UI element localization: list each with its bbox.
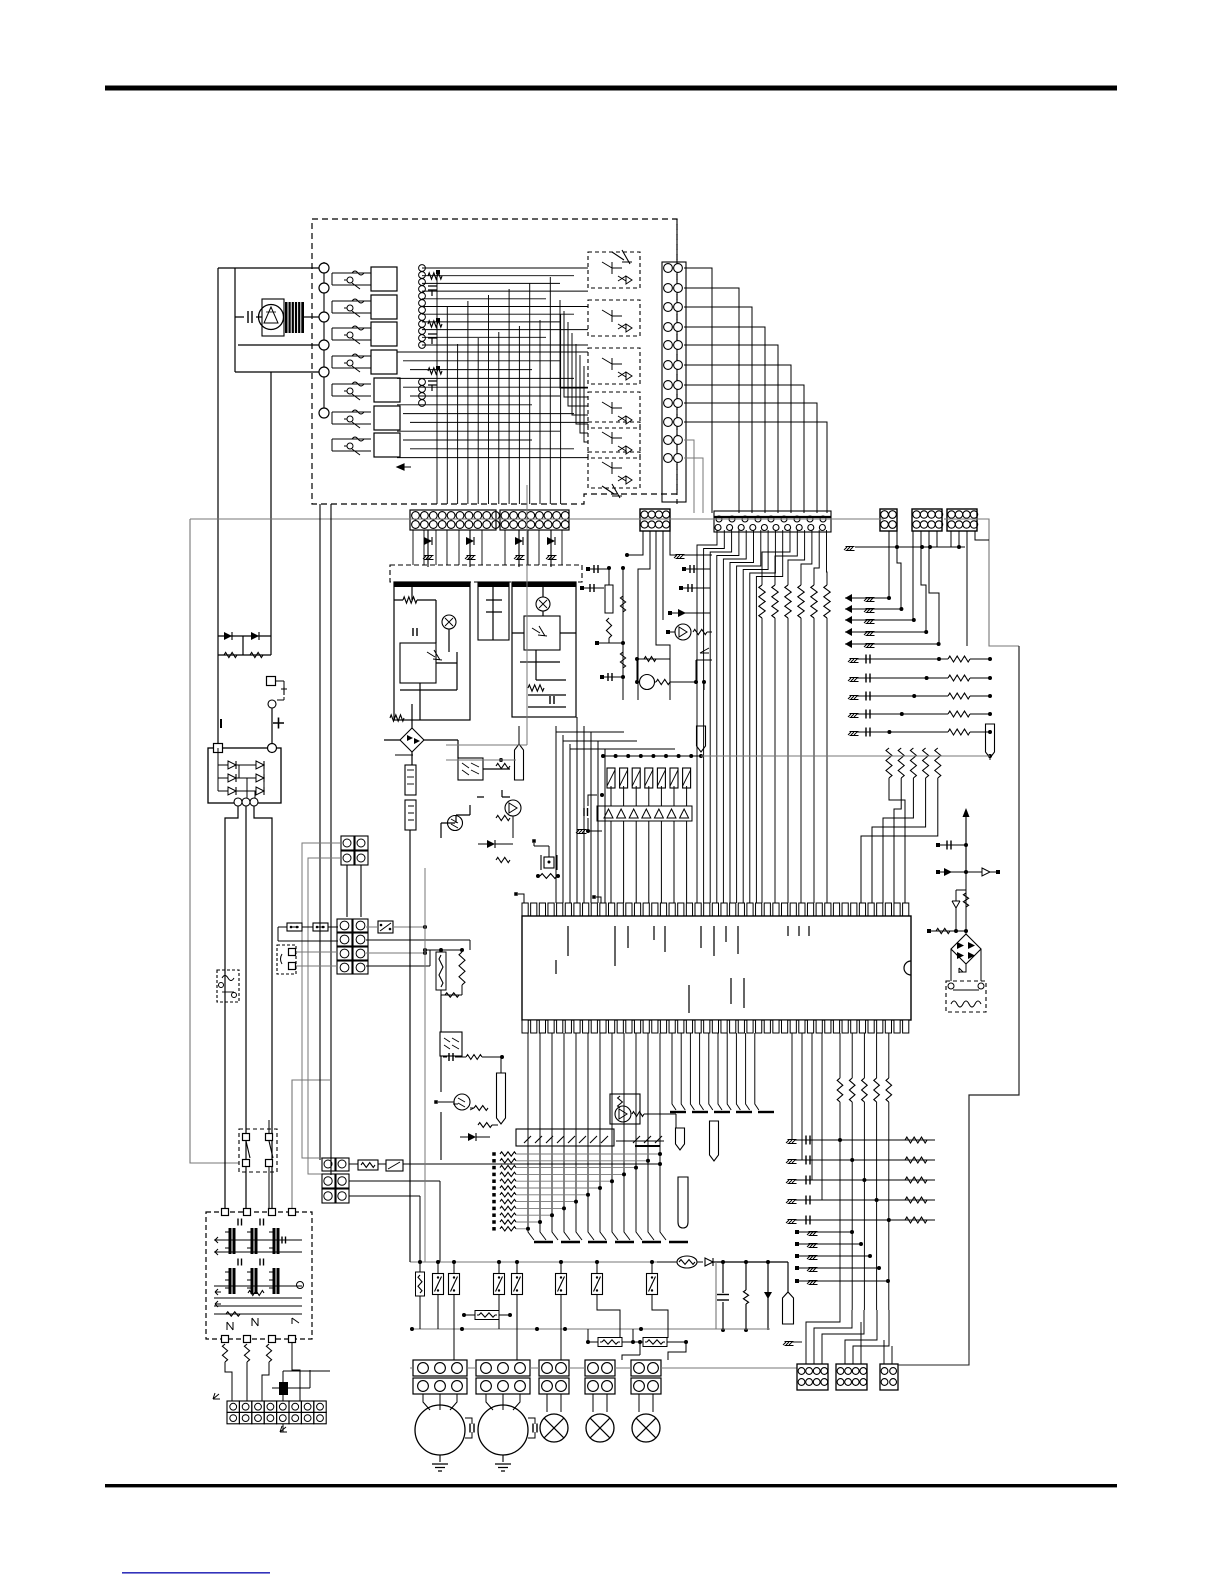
cluster wire x670 [670,531,712,555]
array verticals [610,786,612,806]
power arrow up [965,820,967,872]
CN right A [797,1364,828,1390]
CN lamp2 lower [585,1378,615,1394]
cluster diode row [670,612,710,614]
PSU stub marks [423,556,434,560]
diode array box [597,806,692,821]
right stair wires [889,531,989,646]
wire motor line [235,268,271,655]
PSU module B resistor [528,685,544,691]
polarity plus [273,718,284,729]
main gray bus [190,519,1019,646]
driver transformer blocks T1-T7 [371,267,397,291]
array top bus [603,755,701,757]
PSU module A body [394,582,470,720]
bottle x500 [497,1073,506,1124]
module outputs down [412,717,543,740]
lower relay wires [349,1164,660,1262]
slash box [516,1129,614,1146]
resistor box RB1 [358,1160,378,1170]
header CN-A [410,510,496,530]
header CN-B [500,510,569,530]
gate resistors R-G1..3 [428,273,442,279]
header CN-G block [947,509,977,531]
cluster wire x656 [656,531,670,700]
long vertical from inverter B [330,504,332,1175]
IGBT pairs Q1-Q6 (dashed) [588,252,640,288]
bottle B3 [710,1121,719,1161]
harness black device [279,1382,288,1395]
input filter resistor row [218,654,271,656]
snubber cap C20 [722,1262,724,1330]
center resistor r [448,1053,450,1061]
IC U1 notch [904,961,911,975]
PSU module B wires [512,583,576,707]
PSU dashed boundary [390,565,582,582]
snubber bottle [787,1262,789,1292]
zener row [395,754,413,756]
center vertical x441 [440,995,442,1160]
sense resistors to IC [889,778,905,903]
center cap bottle [515,744,524,780]
wire lower input [235,345,319,372]
output header pins [664,264,673,273]
right cap rows [848,659,859,663]
coil bobbin lower [405,800,416,830]
harness arrow glyph 2 [280,1426,287,1432]
IC U1 bottom ticks [688,985,690,1013]
sense resistor verticals [886,748,892,778]
bottom gray link [410,1367,797,1369]
main switched live vertical [409,830,411,1262]
IC U1 body [522,916,911,1020]
mid 2x2 connector [341,836,354,850]
DC bus wire 4 [292,1080,330,1210]
cluster buzzer [675,624,691,640]
bridge diamond D10 [400,728,424,752]
zener branch [956,872,966,935]
relay K2 [386,1160,403,1171]
motor M3 ground [502,1455,504,1462]
PSU module A wires [394,583,457,720]
left gray drop [190,519,239,1163]
lamp LP3 wires [639,1394,653,1412]
transformer bottom terminals [222,1336,229,1343]
left module columns [413,530,562,565]
CN lamp2 upper [585,1360,615,1376]
relay dashed box small [277,945,296,974]
snubber diode D20 [767,1262,769,1330]
page top rule [105,86,1117,91]
CN-D right drops with resistors [762,530,790,585]
cluster caps [590,568,610,570]
motor M2 ground [439,1455,441,1462]
header CN-E block [880,509,897,531]
CN motor2 upper [476,1360,530,1376]
DC bus wires down [225,806,272,1210]
transformer N glyphs [252,1318,258,1326]
right bottle TP1 [986,724,995,758]
opto U3 [458,758,483,780]
transformer corner glyph [297,1282,304,1289]
res verticals mid [837,1078,843,1102]
tact switches row [433,1274,444,1295]
diode d [468,1133,476,1141]
fuse F2 vertical [436,952,446,990]
fuse F10 [416,1272,425,1296]
input filter diode row [218,636,271,655]
motor M3 wires [486,1394,520,1410]
bottom verticals misc [410,1230,430,1262]
left fan resistor rows [492,1152,496,1156]
IGBT Q7 [602,484,622,498]
capacitor C1 [247,311,249,323]
right block feeds [806,1310,892,1364]
inverter output header frame [662,262,686,502]
coil bobbin upper [405,765,416,795]
lamp LP2 [586,1414,614,1442]
PSU module A lamp [442,615,456,629]
staircase jogs left [556,726,675,749]
bridge output pins [234,798,242,806]
long vertical from inverter A [319,504,321,1160]
diode row y872 [936,870,940,874]
fuse resistor FR1 [475,1311,499,1320]
connector CN-IN pins [323,262,325,418]
IC bottom pin drops mid [672,1033,676,1110]
IGBT top transistor [612,250,632,264]
array bus bottle [697,726,706,752]
mid drop wires [852,1232,888,1310]
bottom bus 1 [410,1261,657,1263]
transformer mid lines [214,1240,302,1314]
right hatch bus [844,547,855,551]
cluster transistor Q20 [640,675,655,690]
sensor dashed box [217,970,239,1002]
right boundary dark [969,646,1019,1350]
header CN-C block [640,509,670,531]
bridge internal wires [218,748,264,802]
opto U4 [440,1032,462,1056]
surge diode [705,1258,713,1266]
CN lamp1 lower [539,1378,569,1394]
gray verticals right of modules [576,620,610,660]
module feed wires [428,567,551,582]
fuse top link [425,949,462,951]
inverter module dashed boundary [312,219,677,504]
PSU module B body [512,582,576,717]
gray link rows [446,745,527,760]
relay K1 [378,921,393,933]
lamp LP1 wires [547,1394,561,1412]
output wires gray pair [684,440,703,513]
filter rails vertical [217,636,219,748]
transformer top terminals [222,1209,229,1216]
lower conn pair [322,1158,335,1171]
motor M3 cap [528,1418,535,1438]
driver block left wiring [332,272,371,274]
lamp LP1 [540,1414,568,1442]
array cap branch [588,795,597,806]
bottom bus 2 [410,1262,770,1329]
CN right B [836,1364,867,1390]
harness arrow glyph 1 [213,1393,220,1399]
relay connector side boxes [287,923,302,931]
transformer windings [229,1228,232,1254]
polarity minus [220,719,222,728]
center resistors [496,763,510,768]
IC U1 bottom pin comb [522,1020,528,1033]
fuse resistor FR2 [598,1338,622,1347]
IC left pin feeds [555,732,557,903]
transformer lower resistors [222,1344,227,1362]
motor M2 [415,1405,465,1455]
lower conn 2x2 [322,1174,335,1188]
resistor R-F2 [459,952,465,985]
PSU module A inner box [400,643,436,683]
CN motor1 lower [413,1378,467,1394]
inverter staircase wires [560,300,588,388]
switch drops [438,1295,668,1360]
motor M3 [478,1405,528,1455]
wires 2x2 to lower connector [347,865,361,917]
header CN-F block [912,509,942,531]
lamp LP3 [632,1414,660,1442]
diamond leads [384,704,438,765]
PSU module B lamp [536,597,550,611]
inverter interconnect horizontal wires [422,267,588,269]
CN lamp1 upper [539,1360,569,1376]
center wires [438,740,510,838]
PSU module B inner box [524,616,560,650]
transformer arrows small [215,1237,221,1243]
CN motor2 lower [476,1378,530,1394]
comb hook sq A [514,892,518,896]
center diode D11 [487,840,495,848]
gate caps [428,286,437,296]
fuse resistor FR3 [643,1338,667,1347]
motor M2 wires [423,1394,457,1410]
PSU module mid body [478,582,509,640]
IC U1 top pin comb [522,903,528,916]
gray vertical x527 [526,485,528,745]
cluster cap row3 [602,676,623,678]
CN lamp3 lower [631,1378,661,1394]
inverter interconnect vertical wires [436,270,438,504]
header CN-D long [714,511,831,532]
page bottom rule [105,1484,1117,1487]
transistor Q11 [448,816,463,831]
fan bottom thick bus [534,1241,553,1244]
inverter bottom arrow [397,464,411,470]
wire AC input top [218,267,319,269]
transistor Q12 [454,1094,470,1110]
PSU input stub wires [428,530,551,567]
surge inductor [677,1256,697,1268]
relay connector block 2x4 [337,919,352,932]
motor M2 cap [465,1418,472,1438]
switch dashed box [239,1129,277,1172]
right hatch small [783,1342,794,1346]
boundary bottom link [898,1350,969,1365]
driver input glyphs [352,271,364,275]
bridge B2 frame [951,949,981,981]
lamp LP2 wires [593,1394,607,1412]
fuse link F1 [267,677,276,686]
right diode rows [845,597,889,599]
snubber resistor R20 [745,1262,747,1330]
mid dash bus [670,1111,686,1113]
IC bottom pin drops right [791,1033,793,1140]
comparator U7 [505,800,521,816]
center resistor r2 [474,1106,488,1111]
CN main harness 2x8 [227,1401,239,1412]
cluster wire x638 [628,531,650,700]
cluster right caps [684,568,710,570]
inverter mid pin column [419,265,426,272]
CN lamp3 upper [631,1360,661,1376]
bridge diamond B2 [951,934,981,964]
switch box wires [246,1120,269,1210]
motor M1 [262,299,284,336]
res row y931 [927,929,931,933]
slash box extension [633,1136,640,1143]
mid hatch rows [797,1231,852,1233]
bottle B2 [676,1128,685,1150]
wires 2x2 left [302,843,341,1174]
CN-D to IC vertical bundle [697,530,717,903]
cluster branch x623 [622,568,624,700]
cap row y845 [936,843,940,847]
triac U5 [610,1094,640,1124]
inverter box right dashed edge [676,219,678,504]
PSU stub diodes [424,537,432,545]
cluster branch x609 [608,568,610,585]
transformer out wires [225,1343,300,1401]
CN-C drops [643,531,670,645]
bridge rectifier body [208,748,281,803]
transformer caps [237,1219,239,1226]
mid cap rows [786,1140,797,1144]
bridge diode rows [218,764,264,766]
pullup resistor array [607,768,615,788]
cluster sw [696,660,712,690]
bridge top terminals [214,744,223,753]
IC bottom pin drops left [528,1033,534,1240]
wire choke to CN pin [304,316,319,318]
gate diodes small [436,270,440,274]
IC U1 top ticks [567,926,569,956]
CN right C [880,1364,898,1390]
transformer res [248,1291,264,1296]
PSU module A transistor [427,650,442,660]
CN motor1 upper [413,1360,467,1376]
relay row wires [393,926,425,928]
bottle B4 [678,1177,688,1228]
opto U6 [544,857,554,868]
transformer dashed box [206,1212,312,1339]
transformer T10 dashed [946,981,986,1012]
inductor L1 (choke) [285,302,304,333]
output wires staircase to CN headers [684,268,712,513]
triac feed [620,1033,640,1094]
comb hook sq B [592,895,596,899]
wire AC left vertical [217,268,219,636]
footer link underline [122,1572,270,1574]
